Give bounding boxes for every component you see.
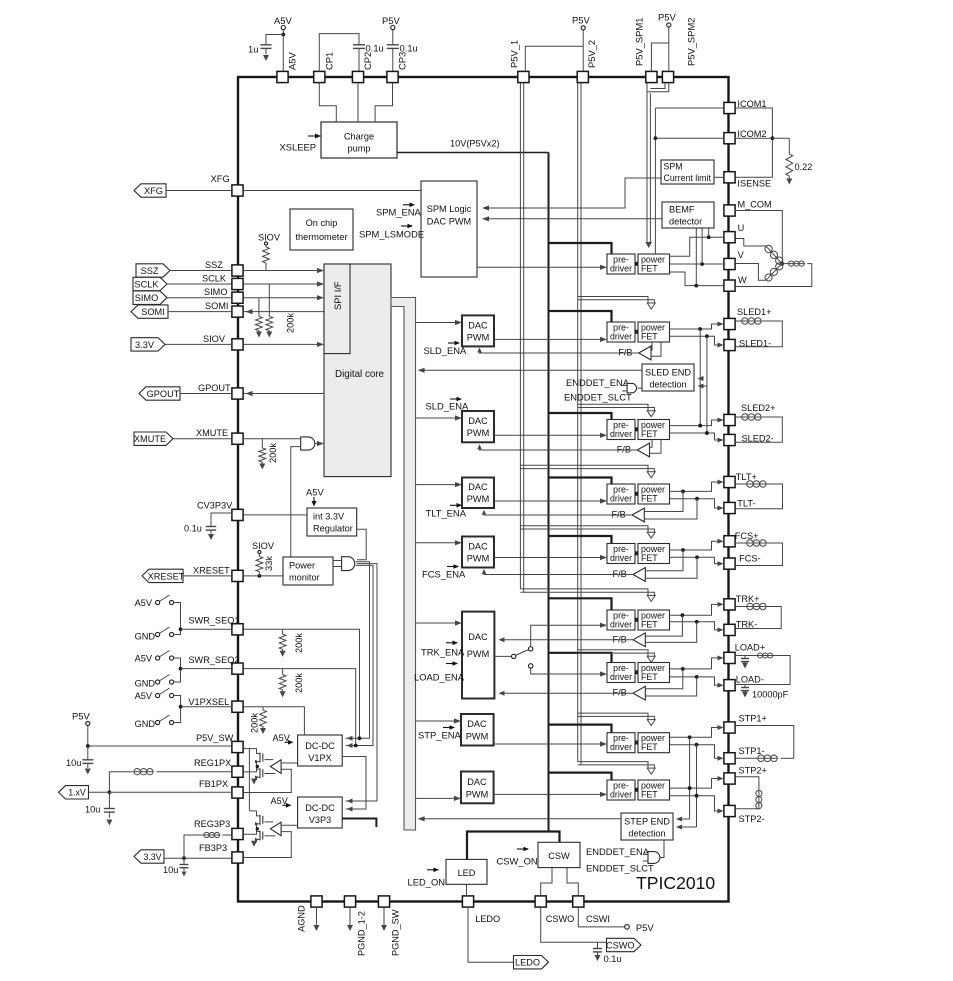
svg-text:LED: LED xyxy=(458,868,476,878)
wire GPOUT from digital core with arrow at pin xyxy=(243,393,324,395)
wire LOAD output to + pin xyxy=(670,658,719,669)
wire XMUTE to NAND gate xyxy=(243,438,300,440)
wire thick branch to LED and CSW blocks xyxy=(467,832,560,860)
wire SPM current limit to SPM Logic xyxy=(483,178,661,208)
wire TLT FET outputs to F/B amp xyxy=(644,491,683,511)
svg-text:monitor: monitor xyxy=(289,573,320,583)
svg-text:Current limit: Current limit xyxy=(664,173,712,183)
flag GPOUT xyxy=(139,387,180,400)
pin SLED1- xyxy=(724,339,735,350)
wire P5V feed hook with arrow into TLT power FET xyxy=(520,465,648,472)
svg-text:1u: 1u xyxy=(248,44,258,55)
wire P5V feed hook with arrow into LOAD power FET xyxy=(578,650,648,657)
pin CV3P3V xyxy=(232,509,243,520)
pin P5V_1 xyxy=(518,71,529,82)
svg-text:0.1u: 0.1u xyxy=(184,524,202,534)
wire FB3P3 feedback riser xyxy=(243,832,291,858)
op-amp F/B sense amplifier FCS xyxy=(633,568,645,582)
block STP1 power FET xyxy=(638,733,670,753)
block SPI I/F xyxy=(324,264,350,354)
svg-text:Digital core: Digital core xyxy=(335,369,385,380)
svg-text:DAC PWM: DAC PWM xyxy=(427,217,471,227)
pin STP2+ xyxy=(724,773,735,784)
pin STP1+ xyxy=(724,722,735,733)
wire XRESET flag to pin xyxy=(183,575,232,577)
block SLED2 pre-driver xyxy=(607,420,635,440)
pin FB1PX xyxy=(232,787,243,798)
wire BEMF detector to SPM Logic xyxy=(483,218,662,220)
block Digital core xyxy=(324,264,391,477)
resistor 200k on SWR_SEQ1 xyxy=(282,629,284,634)
junction square STP1 driver to FET xyxy=(635,741,638,745)
svg-text:DAC: DAC xyxy=(467,719,487,729)
svg-text:3.3V: 3.3V xyxy=(135,340,155,350)
inductor load loop TLT xyxy=(735,483,746,485)
wire DC-DC V1PX output to V3P3 xyxy=(342,757,366,810)
block DAC PWM (TRK/LOAD) xyxy=(462,612,494,699)
wire bus to DAC PWM FCS input xyxy=(416,542,457,544)
pin REG3P3 xyxy=(232,828,243,839)
wire LOAD F/B return to DAC PWM xyxy=(500,692,633,694)
wire P5V to P5V_SW pin xyxy=(87,726,89,746)
block SPM pre-driver xyxy=(607,254,635,274)
capacitor CP3 0.1u xyxy=(392,30,394,45)
svg-text:200k: 200k xyxy=(250,713,260,733)
wire STEP END detection to bus xyxy=(420,818,622,820)
svg-text:ENDDET_ENA: ENDDET_ENA xyxy=(566,377,630,388)
wire V phase with winding xyxy=(735,264,766,281)
wire TRK output to - pin xyxy=(670,622,719,630)
svg-text:P5V: P5V xyxy=(636,922,654,933)
wire SLED outputs monitor column A xyxy=(699,329,701,426)
svg-text:FET: FET xyxy=(641,742,658,752)
pin CSWO xyxy=(535,896,546,907)
wire switch contact A to TRK pre-driver xyxy=(531,625,601,646)
resistor 200k SIMO pulldown xyxy=(258,298,260,317)
pin ISENSE xyxy=(724,172,735,183)
pin TRK+ xyxy=(724,599,735,610)
pin GPOUT xyxy=(232,388,243,399)
wire bus to DAC PWM SLED2 input xyxy=(416,417,457,419)
svg-text:XFG: XFG xyxy=(211,173,230,184)
wire XMUTE gate output to digital core xyxy=(315,443,318,445)
wire BEMF detector sense taps xyxy=(695,228,697,286)
svg-text:W: W xyxy=(738,275,747,285)
svg-text:FET: FET xyxy=(641,332,658,342)
block DAC PWM (SLED2) xyxy=(462,411,494,442)
svg-text:STP2-: STP2- xyxy=(739,814,765,824)
wire thick 10V supply tap to LOAD pre-driver xyxy=(549,653,612,663)
svg-text:SLED END: SLED END xyxy=(645,368,691,378)
svg-text:PWM: PWM xyxy=(467,649,489,659)
svg-text:33k: 33k xyxy=(264,556,274,571)
pin CSWI xyxy=(573,896,584,907)
svg-text:DAC: DAC xyxy=(468,632,488,642)
pin P5V_SPM1 xyxy=(646,71,657,82)
svg-text:SLED2+: SLED2+ xyxy=(741,403,775,413)
svg-text:CP3: CP3 xyxy=(397,52,408,70)
pin CP3 xyxy=(387,71,398,82)
svg-text:GND: GND xyxy=(135,632,156,642)
capacitor 10u on P5V xyxy=(87,746,89,760)
pin LEDO xyxy=(462,896,473,907)
svg-text:FCS-: FCS- xyxy=(739,554,760,564)
svg-text:BEMF: BEMF xyxy=(669,205,695,215)
block DAC PWM (TLT) xyxy=(462,478,494,509)
svg-text:CP1: CP1 xyxy=(324,52,335,70)
block SPM Logic DAC PWM xyxy=(421,181,477,277)
svg-text:ENDDET_SLCT: ENDDET_SLCT xyxy=(564,392,632,403)
wire ENDDET gate to STEP END detection xyxy=(660,840,664,858)
junction square LOAD driver to FET xyxy=(635,670,638,674)
svg-text:SPM Logic: SPM Logic xyxy=(427,204,472,214)
capacitor 0.1u on CV3P3V xyxy=(211,513,232,527)
svg-text:XFG: XFG xyxy=(144,186,163,196)
svg-text:SIMO: SIMO xyxy=(135,293,158,303)
pin SLED1+ xyxy=(724,318,735,329)
svg-text:SIMO: SIMO xyxy=(204,287,227,297)
IC body TPIC2010 outline xyxy=(238,77,729,902)
wire thick V3P3 output xyxy=(342,819,376,828)
wire bus to DAC PWM STP2 input xyxy=(416,797,456,799)
svg-text:On chip: On chip xyxy=(306,218,338,228)
svg-text:CSW: CSW xyxy=(548,851,570,861)
inductor and capacitors load loop LOAD xyxy=(735,655,757,657)
wire LOAD FET outputs to F/B amp xyxy=(645,669,683,689)
wire P5V to P5V_2 and branch to P5V_1 xyxy=(582,30,584,71)
svg-text:DAC: DAC xyxy=(467,777,487,787)
wire thick 10V supply tap to TRK pre-driver xyxy=(549,598,612,610)
svg-text:SOMI: SOMI xyxy=(205,301,228,311)
wire SOMI flag to pin xyxy=(168,311,232,313)
capacitor to ground on LOAD+ xyxy=(744,656,746,659)
inductor load loop SLED2 xyxy=(735,416,741,418)
wire REG1PX node xyxy=(243,768,256,772)
wire TRK FET outputs to F/B amp xyxy=(645,615,682,636)
wire SLED2 output to - pin xyxy=(670,433,719,440)
svg-text:ISENSE: ISENSE xyxy=(737,178,771,188)
block LED driver xyxy=(446,859,487,884)
svg-text:driver: driver xyxy=(610,264,632,274)
svg-text:XSLEEP: XSLEEP xyxy=(280,142,316,153)
inductor load loop STP2 xyxy=(735,777,759,790)
wire SLED1 output to + pin xyxy=(670,324,719,329)
pin STP1- xyxy=(724,753,735,764)
svg-text:FET: FET xyxy=(641,494,658,504)
wire SIMO to SPI I/F xyxy=(243,297,318,299)
wire thick 10V supply tap to STP1 pre-driver xyxy=(549,725,612,733)
wire regulator output to AND gate xyxy=(357,529,367,560)
svg-text:A5V: A5V xyxy=(306,487,324,498)
wire bus to DAC PWM STP1 input xyxy=(416,720,456,722)
block Charge pump xyxy=(321,122,397,158)
block DC-DC V3P3 xyxy=(298,797,343,828)
svg-text:FET: FET xyxy=(641,429,658,439)
block DAC PWM (FCS) xyxy=(462,537,494,568)
svg-text:CSWI: CSWI xyxy=(586,914,610,924)
svg-text:GND: GND xyxy=(135,679,156,689)
svg-text:PWM: PWM xyxy=(467,333,489,343)
svg-text:SSZ: SSZ xyxy=(205,260,223,270)
pin PGND_SW with ground arrow xyxy=(378,896,389,907)
capacitor CP1-CP2 0.1u with wires xyxy=(319,34,359,72)
wire ENDDET gate to SLED END detection xyxy=(638,387,643,389)
wire SPM FET output V xyxy=(670,263,724,265)
wire SLED END detection to bus xyxy=(420,369,643,371)
svg-text:detector: detector xyxy=(669,217,702,227)
svg-text:SIOV: SIOV xyxy=(258,232,281,242)
block SLED1 pre-driver xyxy=(607,322,635,342)
block DAC PWM (STP1) xyxy=(461,714,494,746)
svg-text:driver: driver xyxy=(610,494,632,504)
svg-text:driver: driver xyxy=(610,742,632,752)
pin SSZ xyxy=(232,265,243,276)
svg-text:LEDO: LEDO xyxy=(515,958,540,968)
svg-text:FB3P3: FB3P3 xyxy=(199,843,227,853)
svg-text:STP_ENA: STP_ENA xyxy=(418,730,461,741)
svg-text:P5V: P5V xyxy=(72,711,90,722)
bus P5V_2 double line xyxy=(577,83,579,762)
svg-text:TLT_ENA: TLT_ENA xyxy=(426,508,467,519)
wire CV3P3V to regulator xyxy=(243,514,307,516)
pin P5V_2 xyxy=(577,71,588,82)
svg-text:3.3V: 3.3V xyxy=(143,852,161,862)
flag XFG xyxy=(134,184,166,197)
block STP2 pre-driver xyxy=(607,780,635,800)
gate NAND for XMUTE and power monitor xyxy=(301,437,315,450)
wire LOAD output to - pin xyxy=(670,677,719,685)
flag SSZ xyxy=(136,264,170,277)
svg-text:SPM_ENA: SPM_ENA xyxy=(376,207,422,218)
wire STP outputs monitor column A xyxy=(689,737,691,819)
block Power monitor xyxy=(283,557,333,585)
svg-text:FET: FET xyxy=(641,790,658,800)
svg-text:ENDDET_SLCT: ENDDET_SLCT xyxy=(586,863,654,874)
wire thick 10V supply tap to SPM pre-driver xyxy=(549,243,612,254)
svg-text:SPM_LSMODE: SPM_LSMODE xyxy=(359,229,424,240)
wire W phase with winding xyxy=(782,263,788,265)
flag CSWO output xyxy=(541,907,607,942)
pin W xyxy=(724,280,735,291)
pin LOAD+ xyxy=(724,652,735,663)
pin XFG xyxy=(232,185,243,196)
wire FCS output to + pin xyxy=(670,541,719,550)
svg-text:10u: 10u xyxy=(66,758,81,768)
wire STP2 output to + pin xyxy=(670,779,719,789)
svg-text:SPI I/F: SPI I/F xyxy=(332,281,343,310)
svg-text:DAC: DAC xyxy=(468,416,488,426)
flag 3.3V output xyxy=(134,850,164,863)
wire U phase with winding xyxy=(735,239,766,247)
svg-text:SOMI: SOMI xyxy=(141,307,164,317)
svg-text:LOAD_ENA: LOAD_ENA xyxy=(414,672,465,683)
svg-text:CP2: CP2 xyxy=(362,52,373,70)
wire SIOV to SPI I/F xyxy=(243,343,318,345)
pin V xyxy=(724,258,735,269)
pin SIMO xyxy=(232,292,243,303)
svg-text:SIOV: SIOV xyxy=(252,541,275,551)
inductor load loop SLED1 xyxy=(735,320,741,322)
gate AND power-good xyxy=(342,557,355,571)
svg-text:0.22: 0.22 xyxy=(795,162,813,172)
resistor 200k XMUTE pulldown xyxy=(261,439,263,448)
wire TLT output to - pin xyxy=(670,499,719,508)
wire SOMI from SPI I/F with arrow at pin xyxy=(243,311,324,313)
svg-text:STP1+: STP1+ xyxy=(739,714,767,724)
junction square TRK driver to FET xyxy=(635,618,638,622)
wire SLED1 output to - pin xyxy=(670,336,719,345)
wire ICOM1 internal to power FET supply xyxy=(655,107,723,109)
svg-text:A5V: A5V xyxy=(135,691,153,701)
inductor on REG3P3 output xyxy=(222,834,232,836)
wire XFG flag to pin to SPM Logic xyxy=(166,190,232,192)
svg-text:AGND: AGND xyxy=(297,905,307,932)
svg-text:P5V_SPM2: P5V_SPM2 xyxy=(686,18,697,66)
svg-text:PGND_1-2: PGND_1-2 xyxy=(357,911,367,956)
block TRK power FET xyxy=(638,610,670,630)
block LOAD pre-driver xyxy=(607,663,635,683)
svg-text:PWM: PWM xyxy=(467,428,489,438)
block STEP END detection xyxy=(621,813,673,840)
wire XMUTE flag to pin xyxy=(173,438,232,440)
op-amp F/B sense amplifier SLED2 xyxy=(637,443,649,457)
wire ICOM2 internal xyxy=(655,137,723,139)
wire supply to V3P3 bridge xyxy=(248,749,250,811)
wire 3.3V flag to pin xyxy=(165,343,232,345)
svg-text:XMUTE: XMUTE xyxy=(196,428,228,438)
pin XMUTE xyxy=(232,433,243,444)
op-amp F/B sense amplifier TLT xyxy=(632,508,644,522)
flag XRESET xyxy=(142,569,183,582)
svg-text:M_COM: M_COM xyxy=(738,200,772,210)
wire A5V terminal to A5V pin xyxy=(282,30,284,71)
svg-text:10000pF: 10000pF xyxy=(752,690,789,700)
svg-text:A5V: A5V xyxy=(287,52,298,70)
svg-text:TLT+: TLT+ xyxy=(736,472,757,482)
svg-text:P5V_SW: P5V_SW xyxy=(196,733,234,743)
pin SWR_SEQ1 xyxy=(232,624,243,635)
wire FCS output to - pin xyxy=(670,557,719,563)
block CSW xyxy=(538,842,580,867)
wire SWR_SEQ2 to DC-DC V1PX enable xyxy=(243,669,355,746)
svg-text:SCLK: SCLK xyxy=(202,274,227,284)
block LOAD power FET xyxy=(638,663,670,683)
svg-text:GPOUT: GPOUT xyxy=(147,389,180,399)
wire SLED outputs monitor column B xyxy=(706,336,708,433)
wire jog connecting P5V_SPM2 pin to SPM bus xyxy=(650,83,665,89)
block DC-DC V1PX xyxy=(298,735,343,766)
inductor load loop STP1 xyxy=(735,726,794,759)
flag 1.xV output xyxy=(59,786,89,799)
wire V1PXSEL to DC-DC V1PX xyxy=(243,707,304,735)
block BEMF detector xyxy=(662,202,714,228)
svg-text:V3P3: V3P3 xyxy=(309,815,331,825)
svg-text:200k: 200k xyxy=(294,673,304,693)
wire M_COM to motor star point xyxy=(735,211,782,264)
wire CSW block to CSWO pin xyxy=(541,868,552,896)
pin LOAD- xyxy=(724,680,735,691)
svg-text:V1PX: V1PX xyxy=(308,753,332,763)
pin SOMI xyxy=(232,306,243,317)
wire DAC PWM to SLED1 pre-driver xyxy=(494,338,601,340)
pin PGND_1-2 with ground arrow xyxy=(344,896,355,907)
svg-text:STP1-: STP1- xyxy=(739,746,765,756)
flag SOMI xyxy=(131,305,168,318)
svg-text:PWM: PWM xyxy=(466,790,488,800)
gate AND ENDDET (STEP) xyxy=(648,852,660,864)
wire power monitor to AND gate inputs xyxy=(333,560,342,562)
wire TRK F/B return to DAC PWM xyxy=(500,639,633,641)
svg-text:SLED1+: SLED1+ xyxy=(737,307,771,317)
wire TRK output to + pin xyxy=(670,604,719,615)
svg-text:SSZ: SSZ xyxy=(141,266,159,276)
resistor 200k SCLK pulldown xyxy=(268,284,270,316)
svg-text:LEDO: LEDO xyxy=(475,914,500,924)
wire CSW block to CSWI pin xyxy=(567,868,578,896)
svg-text:DAC: DAC xyxy=(468,482,488,492)
svg-text:10u: 10u xyxy=(163,865,178,875)
svg-text:P5V: P5V xyxy=(382,15,400,26)
block DAC PWM (SLED) xyxy=(462,315,494,346)
svg-text:200k: 200k xyxy=(294,633,304,653)
switch DAC output selector TRK/LOAD xyxy=(494,655,511,657)
svg-text:XMUTE: XMUTE xyxy=(134,434,166,444)
svg-text:detection: detection xyxy=(628,829,665,839)
svg-text:ICOM2: ICOM2 xyxy=(737,129,766,139)
svg-text:driver: driver xyxy=(610,672,632,682)
bus P5V_1 double line xyxy=(519,83,521,589)
wire STP1 output to + pin xyxy=(670,728,719,738)
wire bus to DAC PWM TLT input xyxy=(416,484,457,486)
svg-text:SIOV: SIOV xyxy=(203,334,226,344)
svg-text:FET: FET xyxy=(641,553,658,563)
block SPM Current limit xyxy=(661,160,714,184)
svg-text:TRK_ENA: TRK_ENA xyxy=(421,647,465,658)
svg-text:A5V: A5V xyxy=(135,654,153,664)
block STP1 pre-driver xyxy=(607,733,635,753)
svg-text:TLT-: TLT- xyxy=(737,499,755,509)
svg-text:ENDDET_ENA: ENDDET_ENA xyxy=(586,846,650,857)
wire FCS FET outputs to F/B amp xyxy=(645,550,683,571)
wire ISENSE to current limit block xyxy=(714,176,724,178)
svg-text:A5V: A5V xyxy=(274,15,292,26)
wire SLED2 F/B return to DAC PWM xyxy=(480,446,638,450)
wire REG3P3 node xyxy=(243,830,256,834)
wire driver to DC-DC V1PX xyxy=(281,762,298,764)
block SLED2 power FET xyxy=(638,420,670,440)
svg-text:P5V: P5V xyxy=(572,15,590,26)
wire STP2 output to - pin xyxy=(670,796,719,811)
svg-text:LED_ON: LED_ON xyxy=(408,877,446,888)
svg-text:LOAD-: LOAD- xyxy=(736,675,764,685)
wire SLED2 FET to F/B amp xyxy=(650,440,653,448)
svg-text:DC-DC: DC-DC xyxy=(305,803,335,813)
gate AND ENDDET (SLED) xyxy=(627,383,636,392)
block STP2 power FET xyxy=(638,780,670,800)
pin SIOV xyxy=(232,339,243,350)
block TLT pre-driver xyxy=(607,484,635,504)
wire thick 10V supply tap to FCS pre-driver xyxy=(549,536,612,544)
inductor on REG1PX output xyxy=(157,771,232,773)
junction square TLT driver to FET xyxy=(635,492,638,496)
svg-text:SCLK: SCLK xyxy=(134,279,159,289)
wire P5V feed hook with arrow into SLED2 power FET xyxy=(578,404,648,411)
svg-text:FET: FET xyxy=(641,672,658,682)
flag XMUTE xyxy=(134,432,173,445)
wire STP1 output to - pin xyxy=(670,745,719,759)
wire DAC PWM to FCS pre-driver xyxy=(494,557,601,559)
svg-text:driver: driver xyxy=(610,429,632,439)
